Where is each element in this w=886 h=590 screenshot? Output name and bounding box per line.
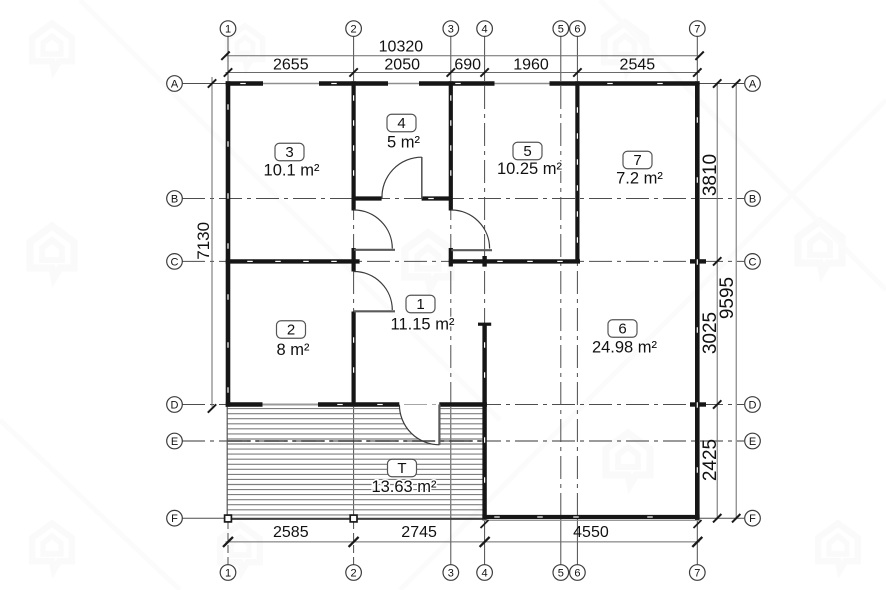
svg-text:C: C — [171, 256, 179, 268]
grid bubble B right — [745, 191, 761, 207]
grid axis 1 — [227, 37, 229, 82]
grid bubble 3 top — [443, 21, 459, 37]
wall D segment west — [226, 402, 263, 407]
svg-text:2: 2 — [351, 24, 357, 36]
svg-text:E: E — [749, 436, 756, 448]
grid axis B — [182, 198, 744, 200]
dimension line right inner — [716, 82, 718, 520]
terrace deck hatch — [227, 409, 483, 515]
svg-text:D: D — [749, 399, 757, 411]
svg-text:7.2 m²: 7.2 m² — [616, 170, 663, 188]
svg-text:1: 1 — [225, 567, 231, 579]
svg-text:5: 5 — [523, 143, 531, 160]
svg-text:10.25 m²: 10.25 m² — [497, 160, 563, 178]
grid bubble C left — [167, 254, 183, 270]
svg-text:10320: 10320 — [379, 38, 424, 55]
svg-text:7: 7 — [694, 567, 700, 579]
svg-text:9595: 9595 — [717, 277, 738, 319]
door D3 swing arc — [451, 210, 490, 249]
svg-text:5 m²: 5 m² — [387, 134, 421, 152]
door D1 (room 1 to room 3) leaf — [354, 249, 395, 251]
svg-text:3810: 3810 — [700, 154, 721, 196]
grid axis 2 — [353, 37, 355, 82]
room 3 label — [264, 143, 320, 179]
door D3 (room 1 to room 5) leaf — [451, 249, 492, 251]
svg-text:2: 2 — [351, 567, 357, 579]
grid bubble 7 top — [690, 21, 706, 37]
grid axis 6 — [576, 37, 578, 82]
room 7 label — [616, 151, 663, 187]
terrace post 1 — [225, 515, 232, 522]
terrace left edge — [226, 407, 228, 518]
grid bubble 1 bottom — [220, 565, 236, 581]
svg-text:2425: 2425 — [700, 439, 721, 481]
svg-text:3: 3 — [448, 24, 454, 36]
wall B segment west — [354, 196, 382, 200]
grid bubble F right — [745, 510, 761, 526]
wall axis 2 door jamb stubs — [352, 199, 356, 211]
wall right exterior (axis 7) — [695, 81, 700, 520]
terrace T label — [371, 459, 437, 496]
svg-text:7: 7 — [633, 152, 641, 169]
grid axis 5 — [560, 37, 562, 82]
svg-text:2655: 2655 — [273, 56, 309, 73]
dimension line top sub — [226, 72, 700, 74]
room 2 label — [277, 321, 311, 359]
grid bubble A right — [745, 76, 761, 92]
room 1 label — [391, 295, 455, 333]
svg-text:E: E — [171, 436, 178, 448]
svg-text:6: 6 — [618, 321, 626, 338]
svg-text:6: 6 — [574, 24, 580, 36]
extension tick at F axis 4 — [481, 520, 489, 528]
svg-text:2585: 2585 — [273, 524, 309, 541]
grid bubble D right — [745, 397, 761, 413]
room 4 label — [387, 114, 421, 151]
svg-text:5: 5 — [558, 24, 564, 36]
svg-text:2: 2 — [287, 322, 295, 339]
wall axis 4 end cap — [478, 323, 491, 326]
wall axis 6 (rooms 5|7) — [575, 81, 579, 263]
door D4 swing arc — [382, 157, 422, 198]
grid bubble E right — [745, 433, 761, 449]
wall axis 2 upper (rooms 3|4) — [352, 81, 356, 198]
grid axis 4 — [484, 37, 486, 82]
terrace bottom edge — [226, 518, 483, 520]
terrace post 2 — [350, 515, 357, 522]
svg-text:3: 3 — [285, 144, 293, 161]
grid bubble F left — [167, 510, 183, 526]
dimension line 9595 — [735, 82, 737, 520]
wall axis 3 upper (rooms 4|5) — [449, 81, 453, 198]
grid bubble D left — [167, 397, 183, 413]
door D5 swing arc — [354, 272, 393, 311]
wall D segment east — [439, 402, 487, 407]
svg-text:13.63 m²: 13.63 m² — [371, 478, 437, 496]
svg-text:7: 7 — [694, 24, 700, 36]
dimension line 10320 — [226, 55, 700, 57]
door D7 (terrace entrance) leaf — [438, 405, 440, 445]
svg-text:F: F — [749, 513, 756, 525]
window W2 (room 4) — [388, 83, 419, 85]
svg-text:2050: 2050 — [384, 56, 420, 73]
wall texture dashes — [240, 83, 246, 85]
svg-text:24.98 m²: 24.98 m² — [592, 339, 658, 357]
terrace door swing clear area — [399, 405, 439, 445]
grid bubble A left — [167, 76, 183, 92]
grid bubble 5 bottom — [553, 565, 569, 581]
wall C west (rooms 3|2) — [226, 259, 360, 263]
wall junction stub right wall at D — [690, 402, 706, 406]
grid axis E — [182, 440, 744, 442]
door D7 swing arc — [399, 405, 439, 445]
grid bubble 3 bottom — [443, 565, 459, 581]
grid axis F — [182, 517, 744, 519]
grid bubble 4 bottom — [477, 565, 493, 581]
window W3 (room 5) — [495, 83, 550, 85]
grid bubble 1 top — [220, 21, 236, 37]
grid axis D — [182, 404, 744, 406]
svg-text:1: 1 — [225, 24, 231, 36]
svg-text:A: A — [749, 78, 757, 90]
wall axis 3 door jamb stubs — [449, 199, 453, 211]
grid bubble 2 top — [346, 21, 362, 37]
svg-text:A: A — [171, 78, 179, 90]
wall F (bottom exterior) — [482, 515, 699, 519]
grid axis 7 — [696, 37, 698, 82]
grid bubble 4 top — [477, 21, 493, 37]
grid bubble E left — [167, 433, 183, 449]
wall F lower edge — [482, 519, 699, 521]
grid bubble 2 bottom — [346, 565, 362, 581]
svg-text:F: F — [171, 513, 178, 525]
svg-text:4550: 4550 — [573, 524, 609, 541]
extension tick at F axis 7 — [694, 520, 702, 528]
dimension line bottom — [226, 541, 700, 543]
svg-text:10.1 m²: 10.1 m² — [264, 162, 320, 180]
wall C east (rooms 5|6) — [449, 259, 580, 263]
door D4 (room 4) leaf — [421, 157, 423, 199]
svg-text:B: B — [749, 193, 756, 205]
grid bubble 6 bottom — [570, 565, 586, 581]
svg-text:2745: 2745 — [401, 524, 437, 541]
wall A (top exterior) — [226, 81, 263, 86]
svg-text:690: 690 — [454, 56, 481, 73]
svg-text:6: 6 — [574, 567, 580, 579]
dimension line 7130 — [211, 77, 213, 407]
wall axis 4 (room 6 west) — [482, 325, 486, 520]
svg-text:B: B — [171, 193, 178, 205]
grid axis 3 — [450, 37, 452, 82]
grid axis A — [182, 83, 744, 85]
window W1 (room 3) — [263, 83, 319, 85]
svg-text:2545: 2545 — [620, 56, 656, 73]
svg-text:1: 1 — [416, 296, 424, 313]
svg-text:4: 4 — [397, 115, 405, 132]
grid bubble C right — [745, 254, 761, 270]
svg-text:4: 4 — [482, 24, 488, 36]
svg-text:11.15 m²: 11.15 m² — [391, 316, 455, 334]
window W4 (room 2 to terrace) — [263, 404, 319, 406]
svg-text:4: 4 — [482, 567, 488, 579]
svg-text:D: D — [171, 399, 179, 411]
wall left exterior (axis 1) — [226, 81, 231, 407]
svg-text:5: 5 — [558, 567, 564, 579]
grid bubble 7 bottom — [690, 565, 706, 581]
wall B segment east — [422, 196, 451, 200]
svg-text:8 m²: 8 m² — [277, 341, 311, 359]
room 5 label — [497, 142, 563, 178]
grid bubble B left — [167, 191, 183, 207]
grid bubble 5 top — [553, 21, 569, 37]
svg-text:C: C — [749, 256, 757, 268]
wall junction stub right wall at C — [690, 259, 706, 263]
svg-text:T: T — [397, 460, 406, 477]
door D1 swing arc — [354, 210, 393, 249]
room 6 label — [592, 320, 658, 357]
grid axis C — [182, 260, 744, 262]
wall junction stub axis 4 at C — [482, 256, 486, 267]
door D5 (room 1 to room 2) leaf — [354, 310, 395, 312]
svg-text:1960: 1960 — [513, 56, 549, 73]
svg-text:7130: 7130 — [194, 222, 213, 260]
svg-text:3: 3 — [448, 567, 454, 579]
grid axis E over terrace — [227, 440, 483, 442]
grid bubble 6 top — [570, 21, 586, 37]
